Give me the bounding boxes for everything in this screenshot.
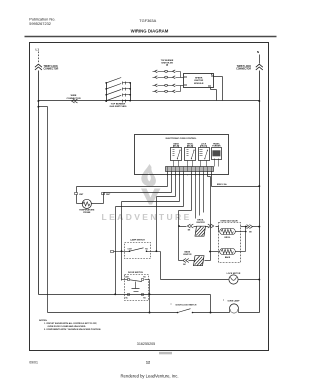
switch SW2 (top burner) <box>105 88 107 90</box>
wire: probe right lead from strip <box>171 172 173 193</box>
twist lock connector (L1) <box>35 64 42 70</box>
connector pins on probe leads <box>75 193 78 195</box>
broil ignitor E2 (hatched) <box>195 226 206 236</box>
svg-text:TWIST LOCK: TWIST LOCK <box>44 66 59 68</box>
wire: module pin B to down right <box>214 76 223 78</box>
svg-text:12: 12 <box>146 361 150 365</box>
svg-text:LAMP SWITCH: LAMP SWITCH <box>130 239 145 242</box>
temperature probe RT1 <box>77 203 83 205</box>
electronic oven control box <box>135 135 229 175</box>
wire: com bus across bottom <box>39 294 211 296</box>
svg-text:6: 6 <box>187 174 188 176</box>
svg-text:BROIL: BROIL <box>225 237 232 239</box>
watermark logo flame and V <box>141 164 161 205</box>
svg-text:SPARK: SPARK <box>195 76 203 79</box>
svg-text:DOOR SWITCH: DOOR SWITCH <box>128 272 144 274</box>
svg-text:N: N <box>257 50 259 54</box>
door switch top contacts <box>128 279 130 281</box>
junction L1 / top bus <box>37 100 39 102</box>
svg-text:CONNECTOR: CONNECTOR <box>66 98 80 100</box>
svg-text:OVEN GAS VALVE: OVEN GAS VALVE <box>220 219 238 222</box>
spark ignitor module U1 <box>184 74 214 88</box>
svg-text:316255205: 316255205 <box>137 342 155 346</box>
bake valve coil <box>220 248 236 254</box>
wire: strip to lamp switch right <box>175 172 177 197</box>
wire connector on top bus <box>72 99 78 103</box>
switch SW3 (top burner) <box>105 94 107 96</box>
spark electrode pair row 3 <box>155 84 158 87</box>
wire: module bottom pin to bus <box>210 88 212 90</box>
svg-text:IGNITOR: IGNITOR <box>183 254 192 256</box>
svg-text:IGNITOR: IGNITOR <box>196 222 205 224</box>
wire: N bus down right side <box>259 71 261 313</box>
watermark smudge under part number <box>159 352 172 354</box>
connector broil left <box>187 224 193 228</box>
connector valve out <box>247 225 253 229</box>
connector strip J1 <box>166 167 214 172</box>
switch SW1 (top burner) <box>105 82 107 84</box>
spark electrode pair row 4 <box>155 90 158 93</box>
wire: second left bus start <box>39 106 48 108</box>
svg-text:(4): (4) <box>166 64 169 67</box>
svg-text:OVEN DOOR CLOSED AND UNLOCKED.: OVEN DOOR CLOSED AND UNLOCKED. <box>48 325 87 328</box>
door switch plunger <box>135 282 137 289</box>
wire into broil ignitor <box>179 226 187 228</box>
wire: L1 bus down left side <box>38 71 40 295</box>
svg-text:L1: L1 <box>36 47 40 51</box>
wire into bake ignitor <box>179 260 183 262</box>
twist lock connector (N) <box>256 64 263 70</box>
switch SW4 (top burner) <box>106 95 121 100</box>
module pins <box>185 77 187 78</box>
wire: strip right to N bus <box>211 172 213 187</box>
wire: strip stubs to broil ignitor area <box>195 172 197 219</box>
svg-text:IGNITOR: IGNITOR <box>194 80 203 82</box>
svg-text:5995267232: 5995267232 <box>29 21 51 26</box>
door switch bottom contacts on bus <box>128 294 130 296</box>
bank left bus junction <box>105 100 107 102</box>
wire: door switch NO to bottom bus <box>145 279 150 281</box>
svg-text:2. COMPONENTS WITH * SHOWN: 2. COMPONENTS WITH * SHOWN IN UNLOCKED P… <box>44 329 101 331</box>
wire: strip to com bus <box>183 172 185 207</box>
svg-text:TGF363A: TGF363A <box>139 18 156 23</box>
bottom bus wire <box>48 312 178 314</box>
L1 dashed lead <box>38 52 40 64</box>
wire: main top bus from L1 <box>39 100 260 102</box>
svg-text:GAS SWITCHES: GAS SWITCHES <box>110 105 127 108</box>
N lead <box>259 55 261 64</box>
door switch blade <box>130 280 142 282</box>
svg-text:ELECTRONIC OVEN CONTROL: ELECTRONIC OVEN CONTROL <box>166 138 198 140</box>
svg-text:BAKE: BAKE <box>225 256 231 259</box>
top burner switches bank buses <box>106 83 108 101</box>
svg-text:PROBE: PROBE <box>83 212 91 214</box>
connector broil right <box>208 224 214 228</box>
wire: strip to ignitors <box>191 172 193 211</box>
spark electrode pair row 2 <box>155 76 158 79</box>
wire: strip to valve bake coil <box>207 172 209 177</box>
wire: probe left lead from strip <box>167 172 169 187</box>
lamp switch left lead with pin <box>111 251 114 253</box>
svg-text:09/01: 09/01 <box>29 361 38 365</box>
svg-text:NOTES:: NOTES: <box>39 320 48 322</box>
svg-text:CONNECTOR: CONNECTOR <box>236 69 251 71</box>
svg-text:COM: COM <box>128 248 133 250</box>
svg-text:BAKE: BAKE <box>184 250 190 253</box>
svg-text:WIRE: WIRE <box>71 95 77 97</box>
lamp switch contacts <box>129 250 131 252</box>
diagram border frame <box>30 43 269 351</box>
wire valve to N bus <box>241 226 248 228</box>
valve coils to output <box>236 231 246 233</box>
spark electrode pair row 1 <box>155 70 158 73</box>
svg-text:*: * <box>171 303 172 307</box>
svg-text:CONNECTOR: CONNECTOR <box>44 69 59 71</box>
svg-text:*: * <box>223 298 224 302</box>
broil valve coil <box>218 227 220 232</box>
junction N / top bus <box>258 100 260 102</box>
junction L1 / second bus <box>37 106 39 108</box>
svg-text:LEADVENTURE: LEADVENTURE <box>102 212 192 222</box>
svg-text:BRN 12 GA: BRN 12 GA <box>217 183 227 186</box>
svg-text:MODULE: MODULE <box>194 83 204 85</box>
connector bake left <box>183 259 189 263</box>
lamp switch right lead <box>147 251 161 253</box>
svg-text:1. CIRCUIT SHOWN WITH ALL CON: 1. CIRCUIT SHOWN WITH ALL CONTROLS SET T… <box>44 322 97 325</box>
svg-text:Rendered by LeadVenture, Inc.: Rendered by LeadVenture, Inc. <box>121 374 179 379</box>
bake ignitor E1 (hatched) <box>194 256 205 266</box>
svg-text:WIRING DIAGRAM: WIRING DIAGRAM <box>131 28 169 33</box>
svg-text:TWIST LOCK: TWIST LOCK <box>237 66 252 68</box>
wire: strip to lamp switch left <box>179 172 181 202</box>
wire stub <box>203 172 205 213</box>
ignitor bus joins <box>180 72 182 78</box>
svg-text:DOOR LOCK SWITCH: DOOR LOCK SWITCH <box>176 305 197 307</box>
svg-text:OVEN LAMP: OVEN LAMP <box>228 299 241 302</box>
header rule <box>25 36 277 38</box>
